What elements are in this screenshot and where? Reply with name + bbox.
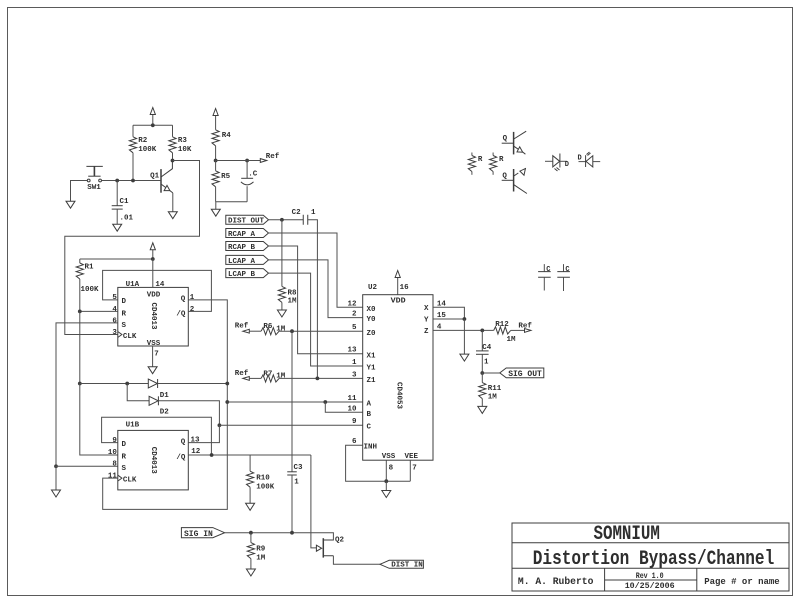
svg-text:Q: Q (502, 173, 507, 181)
svg-text:R1: R1 (85, 264, 95, 272)
wire SIG IN to Q2 drain (225, 533, 334, 540)
junction (115, 179, 119, 183)
svg-text:1: 1 (294, 478, 299, 486)
ground (246, 559, 255, 576)
svg-text:Ref: Ref (266, 153, 280, 161)
net Ref (511, 322, 533, 332)
junction (214, 159, 218, 163)
svg-text:100K: 100K (81, 286, 100, 294)
svg-text:DIST OUT: DIST OUT (228, 218, 265, 226)
wire C2 to Z1 (308, 220, 318, 379)
wire C row to U2 (219, 424, 362, 426)
svg-text:CLK: CLK (123, 333, 137, 341)
wire U1B /Q row (188, 454, 311, 456)
junction (78, 310, 82, 314)
wire Z to R12 (433, 329, 494, 331)
svg-text:C3: C3 (294, 464, 304, 472)
svg-text:D: D (565, 161, 569, 169)
svg-text:R2: R2 (138, 137, 148, 145)
svg-text:SW1: SW1 (87, 184, 101, 192)
svg-text:Y1: Y1 (367, 365, 377, 373)
svg-text:D1: D1 (160, 392, 170, 400)
svg-text:Q: Q (503, 135, 508, 143)
svg-text:1: 1 (190, 294, 195, 302)
junction (280, 218, 284, 222)
wire to SIG OUT (482, 372, 500, 374)
legend resistor R (468, 153, 483, 175)
resistor R5 (212, 161, 231, 202)
wire U2 pin 8 (385, 460, 387, 481)
switch SW1 (86, 166, 102, 192)
svg-text:13: 13 (347, 347, 357, 355)
svg-text:1M: 1M (276, 325, 286, 333)
junction (323, 400, 327, 404)
junction (225, 400, 229, 404)
svg-text:X: X (424, 305, 429, 313)
svg-text:5: 5 (352, 324, 357, 332)
net flag RCAP A (226, 228, 269, 238)
svg-text:INH: INH (364, 444, 378, 452)
ground (277, 302, 286, 317)
svg-text:X1: X1 (367, 352, 377, 360)
legend diode D LED (545, 154, 569, 172)
resistor R3 (169, 125, 192, 160)
wire to D1 anode (80, 383, 149, 385)
wire Z0 to C3 (291, 331, 293, 472)
svg-text:LCAP B: LCAP B (228, 271, 256, 279)
svg-text:D: D (122, 298, 127, 306)
net Ref (216, 153, 280, 162)
capacitor C1 (112, 181, 134, 225)
wire Q1 collector to U1A CLK (65, 161, 200, 335)
net Ref (235, 323, 261, 334)
svg-text:D: D (122, 441, 127, 449)
svg-text:3: 3 (352, 371, 357, 379)
svg-text:100K: 100K (138, 146, 157, 154)
svg-text:VSS: VSS (382, 453, 396, 461)
resistor R4 (212, 130, 231, 161)
svg-text:2: 2 (352, 311, 357, 319)
svg-text:RCAP B: RCAP B (228, 244, 256, 252)
svg-text:Z: Z (424, 328, 429, 336)
svg-text:DIST IN: DIST IN (391, 561, 423, 569)
wire LCAP B to Y1 (269, 273, 363, 366)
svg-text:9: 9 (352, 418, 357, 426)
wire U2 pin 7 (409, 460, 411, 481)
svg-text:U2: U2 (368, 284, 378, 292)
wire LCAP A to Y0 (269, 260, 363, 318)
svg-text:C1: C1 (120, 198, 130, 206)
svg-text:U1A: U1A (126, 281, 140, 289)
junction (151, 257, 155, 261)
svg-text:C: C (565, 266, 569, 274)
resistor R10 (247, 455, 275, 491)
svg-text:R12: R12 (495, 321, 509, 329)
svg-text:.C: .C (248, 171, 258, 179)
ground (52, 466, 61, 497)
svg-text:Y: Y (424, 317, 429, 325)
ground (148, 367, 157, 374)
diode D2 (149, 396, 169, 416)
svg-text:U1B: U1B (126, 422, 140, 430)
svg-text:Page # or name: Page # or name (704, 576, 780, 587)
wire Y (433, 318, 464, 320)
net flag LCAP B (226, 269, 269, 279)
svg-text:CD4053: CD4053 (395, 382, 403, 410)
junction (131, 179, 135, 183)
wire R5 C bottom (216, 201, 248, 203)
svg-text:100K: 100K (256, 483, 275, 491)
svg-text:Rev 1.0: Rev 1.0 (636, 571, 664, 581)
legend resistor R (490, 153, 505, 175)
legend capacitor C (538, 264, 551, 290)
junction (463, 317, 467, 321)
transistor Q2 (316, 537, 344, 558)
svg-text:8: 8 (389, 464, 394, 472)
svg-text:R11: R11 (488, 385, 502, 393)
svg-text:16: 16 (400, 284, 410, 292)
svg-text:R: R (122, 310, 127, 318)
svg-text:3: 3 (112, 329, 117, 337)
ground (478, 399, 487, 414)
svg-text:R7: R7 (263, 370, 272, 378)
svg-text:1: 1 (311, 209, 316, 217)
svg-text:C: C (367, 424, 372, 432)
svg-text:SOMNIUM: SOMNIUM (593, 523, 660, 546)
svg-text:Q1: Q1 (150, 172, 160, 180)
flip-flop U1B (108, 422, 201, 490)
svg-text:R10: R10 (256, 475, 270, 483)
svg-text:S: S (122, 465, 127, 473)
ground (382, 481, 391, 497)
net flag SIG IN (181, 528, 224, 540)
svg-text:C4: C4 (482, 344, 492, 352)
svg-text:Z1: Z1 (367, 377, 377, 385)
svg-text:Z0: Z0 (367, 330, 377, 338)
capacitor C3 (287, 464, 303, 533)
svg-text:Y0: Y0 (367, 316, 377, 324)
junction (218, 423, 222, 427)
net flag LCAP A (226, 255, 269, 265)
svg-text:/Q: /Q (176, 454, 186, 462)
junction (125, 382, 129, 386)
svg-text:SIG IN: SIG IN (184, 530, 213, 539)
wire U1A R (80, 310, 118, 312)
svg-text:VDD: VDD (391, 298, 407, 306)
wire R1 to VDD (80, 258, 153, 260)
title block (512, 523, 789, 591)
net flag DIST OUT (226, 215, 269, 225)
wire Ref node (216, 160, 262, 162)
junction (290, 531, 294, 535)
wire to U1B S (56, 465, 118, 467)
wire D1 cathode (158, 383, 228, 385)
wire (133, 124, 173, 126)
wire RCAP B to X1 (269, 246, 363, 354)
svg-text:R: R (122, 454, 127, 462)
svg-text:R3: R3 (178, 137, 188, 145)
svg-text:S: S (122, 322, 127, 330)
svg-text:7: 7 (412, 464, 417, 472)
svg-text:C: C (546, 266, 550, 274)
ground (113, 224, 122, 231)
junction (245, 159, 249, 163)
svg-text:R5: R5 (221, 173, 231, 181)
svg-text:Ref: Ref (235, 370, 249, 378)
wire to D2 anode (127, 384, 149, 401)
wire U1B R up (80, 384, 118, 456)
svg-text:SIG OUT: SIG OUT (508, 370, 542, 379)
svg-text:R9: R9 (256, 546, 266, 554)
power VCC top (150, 108, 155, 126)
junction (249, 531, 253, 535)
svg-text:9: 9 (112, 437, 117, 445)
net Ref (235, 370, 261, 381)
svg-text:10: 10 (108, 449, 118, 457)
power VCC U1A (150, 243, 155, 259)
svg-text:VDD: VDD (147, 292, 161, 300)
wire U1A pin 7 (152, 346, 154, 367)
junction (78, 382, 82, 386)
svg-text:R8: R8 (288, 290, 298, 298)
wire SW1 to Q1 base (102, 180, 161, 182)
wire Q2 source to DIST IN (333, 556, 380, 564)
svg-text:R4: R4 (222, 132, 232, 140)
wire U1A D to /Q loop (103, 270, 212, 311)
svg-text:1M: 1M (288, 297, 298, 305)
svg-text:12: 12 (347, 300, 357, 308)
legend capacitor C (557, 264, 570, 291)
wire /Q to Q2 gate (311, 455, 317, 548)
junction (225, 382, 229, 386)
svg-text:Distortion Bypass/Channel: Distortion Bypass/Channel (533, 548, 775, 571)
svg-text:Q: Q (181, 438, 186, 446)
resistor R6 (261, 323, 363, 335)
svg-text:4: 4 (112, 306, 117, 314)
svg-text:11: 11 (108, 472, 118, 480)
wire U1A Q bus to U1B CLK (103, 300, 228, 510)
svg-text:1M: 1M (256, 554, 266, 562)
junction (480, 329, 484, 333)
wire SW1 to ground (71, 181, 88, 202)
svg-text:1: 1 (484, 358, 489, 366)
svg-text:11: 11 (347, 395, 357, 403)
node Q1 collector (171, 159, 175, 163)
svg-text:CD4013: CD4013 (149, 302, 157, 330)
analog mux U2 (347, 284, 446, 472)
svg-text:10K: 10K (178, 146, 192, 154)
svg-text:8: 8 (112, 461, 117, 469)
svg-text:Ref: Ref (518, 322, 532, 330)
wire to U2 B (325, 402, 362, 412)
svg-text:B: B (367, 411, 372, 419)
transistor Q1 (150, 161, 173, 193)
svg-text:14: 14 (155, 281, 165, 289)
svg-text:5: 5 (112, 294, 117, 302)
svg-text:CD4013: CD4013 (149, 447, 157, 475)
resistor R7 (261, 370, 363, 382)
resistor R12 (494, 321, 516, 344)
svg-text:CLK: CLK (123, 477, 137, 485)
wire X down (433, 307, 464, 319)
wire R1 node down (79, 311, 81, 383)
svg-text:R: R (499, 156, 504, 164)
junction (210, 453, 214, 457)
net flag DIST IN (380, 560, 423, 569)
svg-text:6: 6 (112, 317, 117, 325)
wire A row to U2 (227, 401, 362, 403)
resistor R2 (129, 125, 156, 180)
junction (480, 371, 484, 375)
svg-text:1: 1 (352, 359, 357, 367)
svg-text:1M: 1M (488, 393, 498, 401)
capacitor C4 (476, 330, 492, 373)
svg-text:10/25/2006: 10/25/2006 (625, 581, 675, 591)
ground (246, 487, 255, 510)
svg-text:.01: .01 (120, 215, 134, 223)
svg-text:1M: 1M (276, 373, 286, 381)
wire U1A pin 14 (152, 259, 154, 287)
net flag SIG OUT (500, 368, 544, 379)
svg-text:LCAP A: LCAP A (228, 258, 256, 266)
svg-text:X0: X0 (367, 306, 377, 314)
svg-text:Q: Q (181, 296, 186, 304)
svg-text:C2: C2 (292, 209, 302, 217)
junction (384, 479, 388, 483)
legend transistor Q npn (502, 131, 527, 154)
svg-text:Q2: Q2 (335, 537, 345, 545)
svg-text:7: 7 (154, 351, 159, 359)
legend transistor Q pnp (502, 168, 527, 193)
svg-text:Ref: Ref (235, 323, 249, 331)
capacitor C2 (292, 209, 316, 225)
svg-text:D: D (578, 155, 582, 163)
svg-text:/Q: /Q (176, 310, 186, 318)
wire U1A S down (56, 323, 118, 466)
junction (290, 329, 294, 333)
wire XY to ground (463, 319, 465, 354)
wire U1B Q up (188, 425, 219, 442)
junction (316, 377, 320, 381)
resistor R9 (247, 533, 266, 563)
wire U1B D to /Q loop (102, 417, 212, 455)
power VCC R4 (213, 109, 218, 130)
resistor R8 (278, 220, 297, 306)
junction (151, 123, 155, 127)
power VCC U2 (395, 271, 400, 295)
wire RCAP A to X0 (269, 233, 363, 307)
svg-text:VEE: VEE (405, 453, 419, 461)
ground (66, 201, 75, 208)
wire DIST OUT to C2 (269, 219, 304, 221)
ground (211, 202, 220, 216)
junction (54, 464, 58, 468)
wire Q1 emitter (172, 193, 174, 212)
ground (168, 212, 177, 219)
resistor R11 (479, 373, 502, 401)
svg-text:2: 2 (190, 306, 195, 314)
resistor R1 (76, 259, 99, 311)
flip-flop U1A (112, 281, 194, 359)
wire INH VSS VEE (346, 445, 411, 481)
capacitor C (polarized) (241, 161, 258, 202)
svg-text:10: 10 (347, 405, 357, 413)
svg-text:RCAP A: RCAP A (228, 231, 256, 239)
svg-text:1M: 1M (507, 336, 517, 344)
svg-text:VSS: VSS (147, 340, 161, 348)
legend diode D LED (578, 152, 601, 167)
svg-text:R: R (478, 156, 483, 164)
svg-text:D2: D2 (160, 409, 170, 417)
svg-text:M. A. Ruberto: M. A. Ruberto (518, 576, 594, 588)
net flag RCAP B (226, 242, 269, 252)
svg-text:R6: R6 (263, 323, 273, 331)
diode D1 (148, 379, 169, 400)
wire D2 cathode (158, 401, 219, 426)
ground (460, 354, 469, 361)
svg-text:A: A (367, 401, 372, 409)
